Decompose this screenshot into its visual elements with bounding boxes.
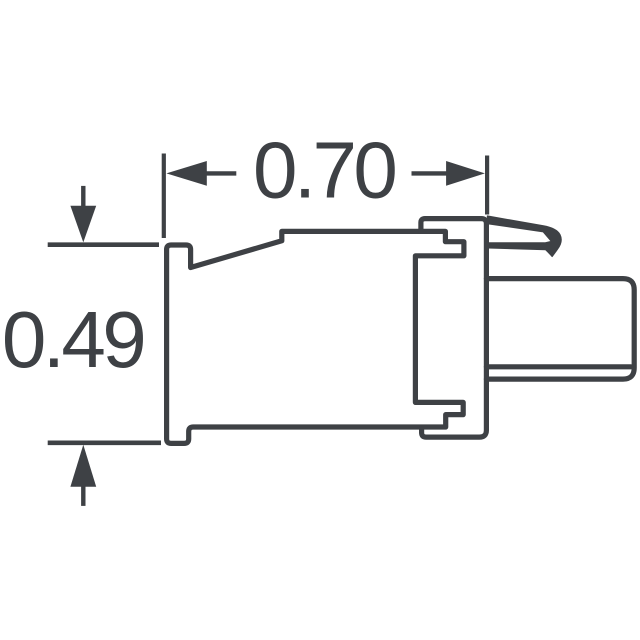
- svg-text:0.49: 0.49: [2, 295, 143, 384]
- svg-text:0.70: 0.70: [253, 126, 395, 215]
